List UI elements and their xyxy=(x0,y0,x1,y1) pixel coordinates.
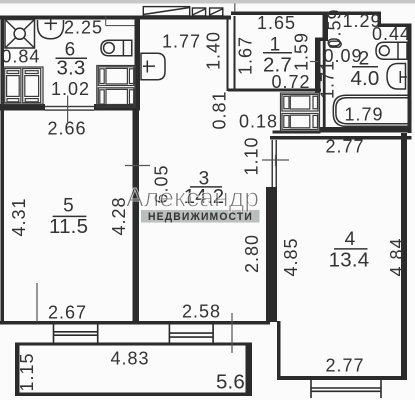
node: dim leader 1.02 xyxy=(67,96,69,123)
vent shaft long wedge xyxy=(143,7,189,16)
svg-text:1.79: 1.79 xyxy=(344,105,383,125)
svg-text:0.44: 0.44 xyxy=(372,24,411,44)
node: top joint line xyxy=(234,4,236,13)
svg-text:5: 5 xyxy=(63,196,74,217)
vent shaft small 2 xyxy=(210,8,223,16)
window W2 room3 xyxy=(169,322,213,344)
room 2 underline xyxy=(352,66,378,68)
wire: room2 left thin wall lower xyxy=(323,41,326,131)
wire: room2 bottom wall xyxy=(320,127,412,133)
svg-text:4.85: 4.85 xyxy=(281,237,301,276)
svg-text:2.77: 2.77 xyxy=(325,136,364,156)
door leaf pill room2 xyxy=(329,41,341,47)
wire: balcony bottom wall xyxy=(15,393,252,397)
svg-text:2.58: 2.58 xyxy=(182,301,221,321)
wire: room4 right wall xyxy=(401,133,407,380)
svg-text:0.72: 0.72 xyxy=(271,72,310,92)
wire: bath door opening lines xyxy=(45,106,94,107)
svg-text:Александр: Александр xyxy=(126,183,259,213)
svg-text:1.65: 1.65 xyxy=(257,13,296,33)
wire: top wall rooms 1-2 xyxy=(231,12,381,16)
svg-text:1.40: 1.40 xyxy=(204,31,224,70)
toilet room6 xyxy=(101,40,132,56)
node: dim tick room5 right wall xyxy=(125,165,150,167)
wire: room2 top step vertical xyxy=(378,12,382,27)
wire: room4 doorway jamb lines xyxy=(272,140,274,187)
appliance block B (two units stacked, right side of bath) xyxy=(97,66,136,108)
wire: right outer wall room2 xyxy=(408,24,412,134)
node: dim tick 1.10 xyxy=(262,155,289,167)
watermark band xyxy=(141,210,260,223)
svg-text:2.77: 2.77 xyxy=(325,355,364,375)
svg-text:НЕДВИЖИМОСТИ: НЕДВИЖИМОСТИ xyxy=(148,211,253,223)
svg-text:5.6: 5.6 xyxy=(216,371,245,394)
room 6 underline xyxy=(56,57,88,59)
bathtub room2 xyxy=(333,95,411,126)
room 1 underline xyxy=(263,52,292,54)
svg-text:1.59: 1.59 xyxy=(292,32,312,71)
wire: south wall inner line rooms 5-3 xyxy=(0,321,270,325)
wire: left outer wall xyxy=(1,16,5,325)
svg-text:4: 4 xyxy=(345,229,356,250)
node: niche line 2.25 bracket xyxy=(106,17,135,26)
wire: balcony left wall xyxy=(15,343,20,397)
wire: room1 bottom wall xyxy=(228,89,321,92)
svg-text:1.71: 1.71 xyxy=(318,60,338,99)
svg-text:0.84: 0.84 xyxy=(1,46,40,66)
node: dim leader 2.58 right xyxy=(231,313,233,353)
svg-text:0.81: 0.81 xyxy=(210,90,230,129)
wire: room4 top wall xyxy=(270,136,412,140)
wire: room4 bottom wall xyxy=(277,376,407,380)
wire: walls A-B junction xyxy=(315,38,328,42)
svg-text:4.0: 4.0 xyxy=(350,67,379,90)
svg-text:2.25: 2.25 xyxy=(64,18,103,38)
wire: room4 left wall lower xyxy=(277,321,281,380)
node: dim tick room1 right xyxy=(310,61,319,63)
svg-text:1.02: 1.02 xyxy=(51,79,90,99)
svg-text:1.67: 1.67 xyxy=(236,36,256,75)
room 4 underline xyxy=(334,248,368,250)
svg-text:1.77: 1.77 xyxy=(162,31,201,51)
svg-text:4.83: 4.83 xyxy=(110,348,149,368)
room 5 underline xyxy=(53,215,87,217)
wire: shaft bottom wall xyxy=(273,131,321,134)
svg-text:2.66: 2.66 xyxy=(47,119,86,139)
svg-text:3.3: 3.3 xyxy=(56,57,85,80)
svg-text:0.18: 0.18 xyxy=(239,111,278,131)
wire: balcony right wall xyxy=(246,343,253,397)
wire: bath bottom wall left segment xyxy=(0,104,45,111)
room 3 underline xyxy=(190,186,222,188)
kitchen sink hallway xyxy=(141,53,165,80)
wire: room1 left partition double line xyxy=(227,16,229,91)
appliance block A (two units, bottom-left of bath) xyxy=(3,67,44,104)
top gray bar xyxy=(0,0,415,4)
wire: room3 right wall thick xyxy=(266,187,277,322)
appliance block C (shaft units between room1 and room4) xyxy=(281,93,320,131)
wire: room2 left wall upper xyxy=(323,12,329,41)
wire: bath bottom wall right segment xyxy=(94,104,140,111)
svg-text:2.67: 2.67 xyxy=(48,302,87,322)
svg-text:4.84: 4.84 xyxy=(387,237,407,276)
vent shaft small 1 xyxy=(192,8,205,16)
shower tray room6 xyxy=(5,20,35,49)
washbasin room6 xyxy=(38,17,64,39)
svg-text:1.15: 1.15 xyxy=(17,352,37,391)
toilet room2 xyxy=(387,64,407,90)
node: dim leader 2.67 left xyxy=(36,283,38,322)
wire: bath right wall xyxy=(135,20,141,111)
svg-text:4.31: 4.31 xyxy=(9,197,29,236)
svg-text:2.80: 2.80 xyxy=(242,234,262,273)
window W3 room4 xyxy=(311,380,381,398)
svg-text:11.5: 11.5 xyxy=(49,215,88,238)
wire: balcony outer sill line xyxy=(15,343,252,346)
wire: wall room3-room5 xyxy=(133,111,140,322)
svg-text:1.10: 1.10 xyxy=(242,136,262,175)
svg-text:4.28: 4.28 xyxy=(109,196,129,235)
sink room2 xyxy=(376,42,407,59)
svg-text:13.4: 13.4 xyxy=(329,249,370,272)
wire: top wall left segment xyxy=(0,16,231,20)
window W1 room5 xyxy=(54,322,98,344)
wire: room1 right wall xyxy=(315,38,321,93)
wire: top wall right part xyxy=(378,24,412,28)
